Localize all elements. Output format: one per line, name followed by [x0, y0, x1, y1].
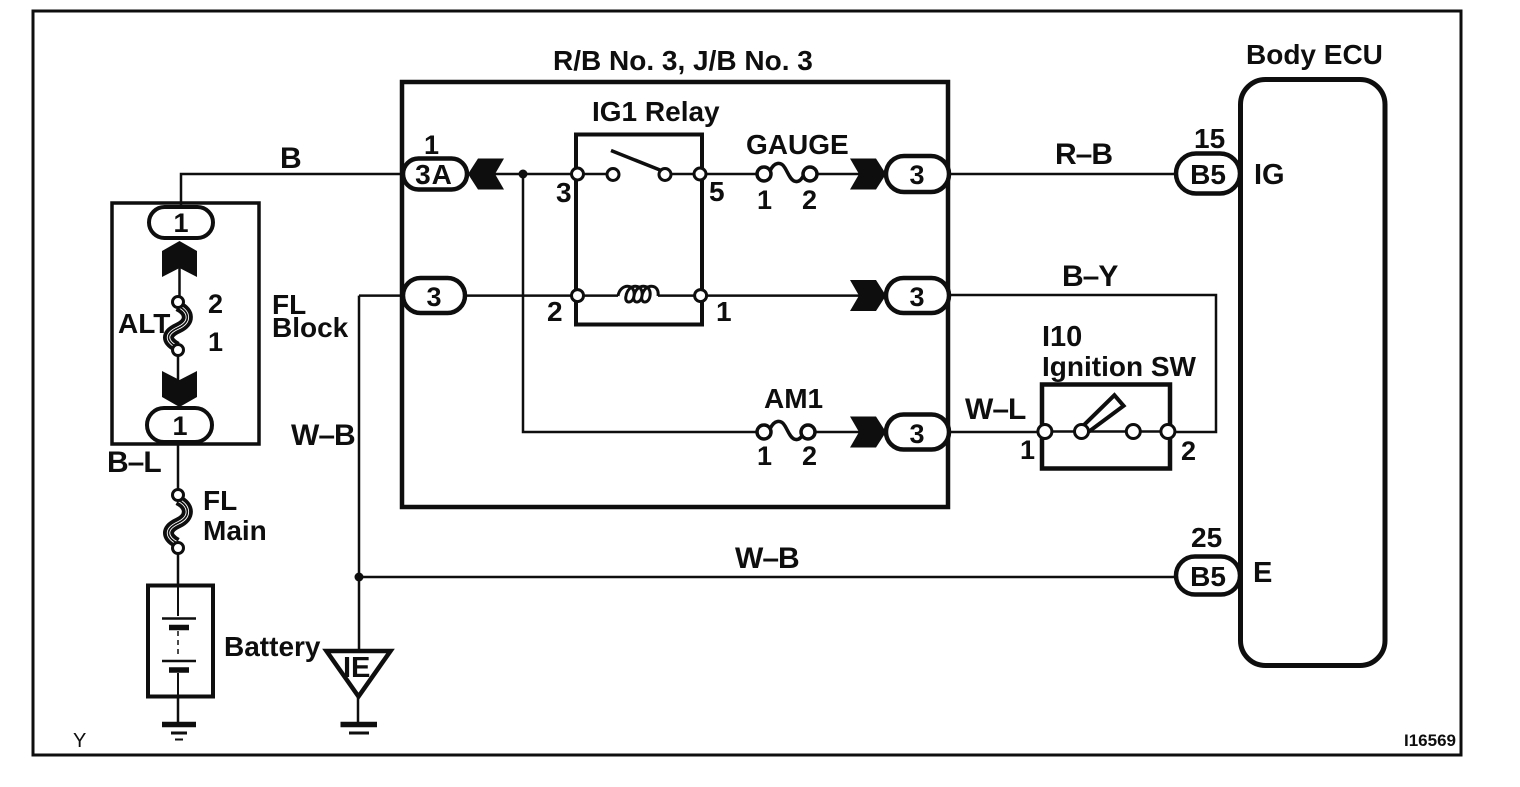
switch I10 box [1042, 385, 1170, 469]
connector 3 row2 right [886, 278, 949, 313]
wire battery riser [177, 442, 180, 495]
wire through switch pins [1044, 430, 1168, 433]
fusible link ALT circles [173, 297, 184, 308]
svg-text:Block: Block [272, 312, 349, 343]
wire B-Y [949, 295, 1216, 432]
svg-text:1: 1 [208, 327, 223, 357]
svg-text:5: 5 [709, 176, 725, 207]
wire AM1 branch vertical and horizontal [523, 174, 764, 432]
svg-text:R–B: R–B [1055, 138, 1112, 171]
svg-text:1: 1 [173, 208, 188, 238]
svg-text:1: 1 [757, 441, 772, 471]
wire GAUGE fuse to connector 3 [810, 173, 864, 176]
connector B5 IG [1176, 154, 1240, 194]
wire ALT link [178, 260, 181, 302]
svg-text:2: 2 [547, 296, 563, 327]
relay contact circle right [659, 169, 671, 181]
svg-text:25: 25 [1191, 522, 1222, 553]
svg-text:2: 2 [802, 441, 817, 471]
svg-text:1: 1 [757, 185, 772, 215]
arrow up ALT [162, 241, 197, 277]
arrow into connector 3 row2 (right chevron) [850, 280, 886, 311]
junction dot at 3A wire [519, 170, 528, 179]
svg-text:W–L: W–L [965, 393, 1026, 426]
connector 1 FL Block top [149, 207, 213, 238]
connector 3 row2 left [403, 278, 465, 313]
wire W-B vertical [358, 296, 361, 651]
svg-text:1: 1 [716, 296, 732, 327]
svg-text:15: 15 [1194, 123, 1225, 154]
switch pin circles [1038, 425, 1052, 439]
svg-text:3: 3 [909, 419, 924, 449]
relay IG1 box [576, 135, 702, 325]
svg-text:2: 2 [1181, 436, 1196, 466]
svg-text:2: 2 [802, 185, 817, 215]
wire relay pin 5 to GAUGE fuse [663, 173, 764, 176]
wire W-L [949, 431, 1046, 434]
arrow into connector 3 row3 (right chevron) [850, 417, 886, 448]
wire W-B bottom [359, 576, 1178, 579]
svg-text:B: B [280, 142, 301, 175]
svg-text:IG: IG [1254, 159, 1285, 191]
svg-text:3: 3 [556, 177, 572, 208]
svg-text:Body ECU: Body ECU [1246, 39, 1383, 70]
IE ground [357, 697, 360, 724]
svg-text:B–Y: B–Y [1062, 260, 1118, 293]
wire AM1 fuse to connector 3 row3 [808, 431, 864, 434]
svg-text:FL: FL [203, 485, 237, 516]
arrow into 3A (left chevron) [468, 159, 504, 190]
wire B (ALT to 3A) [181, 174, 403, 207]
wire R-B [949, 173, 1178, 176]
fuse AM1 element [770, 421, 804, 439]
fuse GAUGE element [770, 163, 804, 181]
svg-text:I16569: I16569 [1404, 731, 1456, 750]
relay pin 3 circle [572, 168, 584, 180]
junction dot W-B [355, 573, 364, 582]
connector 3A [403, 159, 467, 190]
fusible link ALT squiggle [169, 306, 188, 347]
svg-text:GAUGE: GAUGE [746, 129, 849, 160]
switch lever [1078, 395, 1124, 436]
svg-text:1: 1 [1020, 435, 1035, 465]
svg-text:Battery: Battery [224, 631, 321, 662]
wire left connector 3 to relay pin 2 [359, 294, 618, 297]
fusible link FL Main circles [173, 490, 184, 501]
svg-text:I10: I10 [1042, 321, 1082, 353]
svg-text:Main: Main [203, 515, 267, 546]
svg-text:3A: 3A [415, 159, 453, 190]
relay switch blade [611, 151, 665, 173]
svg-text:B5: B5 [1190, 561, 1226, 592]
svg-text:B–L: B–L [107, 446, 161, 479]
svg-text:3: 3 [426, 282, 441, 312]
battery plates [177, 586, 179, 616]
ECU body outline [1241, 80, 1386, 666]
fusible link FL Main squiggle [169, 500, 188, 543]
connector 1 FL Block bottom [147, 408, 212, 442]
svg-text:Ignition SW: Ignition SW [1042, 351, 1197, 382]
relay contact circle left [607, 169, 619, 181]
svg-text:W–B: W–B [291, 419, 355, 452]
fuse block FL Block box [112, 203, 259, 444]
svg-text:Y: Y [73, 730, 86, 752]
svg-text:1: 1 [172, 411, 187, 441]
svg-text:IG1 Relay: IG1 Relay [592, 96, 720, 127]
battery ground [177, 697, 180, 723]
svg-text:R/B No. 3, J/B No. 3: R/B No. 3, J/B No. 3 [553, 45, 813, 76]
wire relay pin 1 to connector 3 row2 [658, 294, 864, 297]
svg-text:3: 3 [909, 282, 924, 312]
svg-text:E: E [1253, 557, 1272, 589]
ground IE triangle [327, 651, 391, 697]
connector 3 row3 [886, 415, 949, 450]
svg-text:3: 3 [909, 160, 924, 190]
connector B5 E [1176, 557, 1240, 595]
svg-text:W–B: W–B [735, 542, 799, 575]
svg-text:AM1: AM1 [764, 383, 823, 414]
relay pin 2 circle [572, 290, 584, 302]
relay pin 5 circle [694, 168, 706, 180]
connector 3 row1 [886, 156, 949, 192]
svg-text:IE: IE [343, 652, 370, 684]
arrow into connector 3 row1 (right chevron) [850, 159, 886, 190]
battery box [148, 586, 213, 697]
svg-text:ALT: ALT [118, 308, 170, 339]
svg-text:1: 1 [424, 130, 439, 160]
relay pin 1 circle [695, 290, 707, 302]
wire 3A to relay pin 3 [494, 173, 614, 176]
arrow down ALT [162, 371, 197, 407]
junction box R/B No. 3 J/B No. 3 [402, 82, 948, 507]
svg-text:2: 2 [208, 289, 223, 319]
relay coil [618, 286, 658, 302]
svg-text:B5: B5 [1190, 159, 1226, 190]
